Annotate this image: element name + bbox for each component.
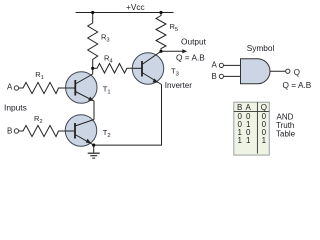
svg-text:T2: T2 [103, 128, 111, 139]
svg-text:Output: Output [181, 36, 207, 46]
svg-text:Inverter: Inverter [165, 81, 192, 90]
svg-text:Inputs: Inputs [4, 103, 27, 113]
svg-text:Q: Q [261, 103, 267, 112]
svg-text:Table: Table [276, 130, 296, 139]
svg-text:R2: R2 [34, 114, 43, 125]
svg-text:A: A [212, 61, 218, 70]
svg-text:R4: R4 [104, 54, 113, 65]
svg-text:A: A [7, 83, 13, 92]
svg-text:+Vcc: +Vcc [126, 2, 145, 12]
svg-text:B: B [7, 127, 12, 136]
svg-text:1: 1 [246, 136, 251, 145]
svg-text:B: B [212, 72, 217, 81]
svg-text:Symbol: Symbol [247, 43, 275, 53]
svg-text:A: A [246, 103, 252, 112]
svg-text:Q: Q [294, 68, 300, 77]
svg-text:R3: R3 [101, 33, 110, 44]
svg-text:B: B [237, 103, 242, 112]
svg-text:R1: R1 [35, 70, 44, 81]
svg-text:Q = A.B: Q = A.B [283, 80, 312, 90]
svg-text:1: 1 [262, 136, 267, 145]
svg-text:T1: T1 [103, 85, 111, 96]
svg-text:R5: R5 [170, 22, 179, 33]
svg-text:Q = A.B: Q = A.B [176, 52, 205, 62]
svg-text:1: 1 [237, 136, 242, 145]
svg-text:T3: T3 [171, 67, 179, 78]
